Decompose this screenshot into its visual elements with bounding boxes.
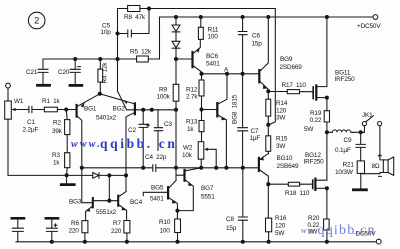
wire: x=275 column from top rail to R14 bottom xyxy=(269,9,276,125)
svg-text:2.2μF: 2.2μF xyxy=(23,127,39,134)
svg-text:BG2: BG2 xyxy=(113,106,126,113)
capacitor C3 xyxy=(154,110,162,151)
svg-text:R18 110: R18 110 xyxy=(285,190,310,197)
svg-text:C6: C6 xyxy=(252,33,260,40)
svg-text:R5 12k: R5 12k xyxy=(130,49,152,56)
node: BG11 source xyxy=(325,96,328,99)
svg-text:R9: R9 xyxy=(159,87,167,94)
svg-text:R13: R13 xyxy=(186,119,198,126)
transistor BG8 collector xyxy=(218,74,227,104)
wire: +DC50V rail y=17 xyxy=(160,16,373,18)
ground under C21 xyxy=(38,84,50,87)
svg-text:220: 220 xyxy=(111,228,122,235)
diode D1 xyxy=(172,25,180,31)
resistor R6 xyxy=(82,221,88,233)
transistor BG3 xyxy=(92,198,94,207)
transistor BG1 collector xyxy=(77,116,82,168)
svg-text:0.1μF: 0.1μF xyxy=(335,147,351,154)
node: BG12 source xyxy=(325,187,328,190)
resistor R19 xyxy=(326,98,328,133)
resistor R5 xyxy=(137,56,149,62)
svg-text:R10: R10 xyxy=(159,219,171,226)
svg-text:1k: 1k xyxy=(53,160,60,167)
node: BG1 base / R2 xyxy=(65,108,68,111)
svg-text:IRF250: IRF250 xyxy=(335,76,356,83)
transistor BG10 xyxy=(258,158,260,171)
mosfet BG11 source lead xyxy=(316,97,327,99)
transistor BG9 collector xyxy=(260,17,269,71)
node: BG9 collector top xyxy=(267,16,270,19)
capacitor C20 xyxy=(70,59,80,84)
transistor BG4 emitter xyxy=(119,205,127,221)
potentiometer W2 xyxy=(198,142,204,160)
node: output node xyxy=(325,131,328,134)
node: BG8 emitter tie xyxy=(225,166,228,169)
capacitor C5 xyxy=(118,30,132,37)
svg-text:15p: 15p xyxy=(252,40,263,47)
svg-text:W2: W2 xyxy=(183,145,193,152)
node: BG11 drain top xyxy=(325,16,328,19)
transistor BG3 emitter xyxy=(86,206,93,221)
diode D3 in bias line xyxy=(93,173,99,179)
svg-text:qqibb.cn: qqibb.cn xyxy=(318,223,376,238)
transistor BG6 xyxy=(191,52,193,67)
svg-text:qqibb. cn: qqibb. cn xyxy=(100,136,177,151)
resistor R17 xyxy=(268,91,312,93)
capacitor C6 xyxy=(238,17,247,74)
svg-text:5551: 5551 xyxy=(201,193,215,200)
transistor BG3 collector wire to BG4 base xyxy=(93,200,117,202)
potentiometer W1 xyxy=(7,88,9,175)
svg-text:5W: 5W xyxy=(304,126,314,133)
transistor BG9 xyxy=(258,70,260,82)
svg-text:R4 12k: R4 12k xyxy=(102,62,109,84)
transistor BG6 collector xyxy=(193,66,202,74)
node: BG1 collector on rail xyxy=(80,166,83,169)
node: C20 top xyxy=(74,58,77,61)
node: bias/BG3 xyxy=(108,174,111,177)
svg-text:R16: R16 xyxy=(275,215,287,222)
speaker 8 ohm xyxy=(383,160,388,173)
capacitor C9 xyxy=(356,132,365,161)
diode D2 xyxy=(172,41,180,47)
svg-text:R12: R12 xyxy=(186,87,198,94)
svg-text:5551x2: 5551x2 xyxy=(96,209,117,216)
capacitor C7 xyxy=(238,74,248,168)
ground under C20 xyxy=(70,84,82,87)
node: R10 bottom xyxy=(176,240,179,243)
transistor BG7 collector xyxy=(185,168,201,171)
svg-text:JK1: JK1 xyxy=(362,112,373,119)
svg-text:R8 47k: R8 47k xyxy=(124,14,146,21)
capacitor C22 xyxy=(12,217,24,220)
resistor R20 xyxy=(326,188,328,242)
svg-text:100k: 100k xyxy=(157,94,171,101)
transistor BG1 xyxy=(75,105,77,117)
node: R8/C5 right junction xyxy=(148,7,151,10)
svg-text:BG7: BG7 xyxy=(201,185,214,192)
svg-text:IRF250: IRF250 xyxy=(304,159,325,166)
svg-text:5W: 5W xyxy=(275,230,285,237)
transistor BG8 emitter xyxy=(218,115,227,168)
svg-text:R14: R14 xyxy=(276,100,288,107)
svg-text:R7: R7 xyxy=(113,220,121,227)
svg-text:3W: 3W xyxy=(276,115,286,122)
transistor BG2 emitter xyxy=(100,94,135,104)
mosfet BG12 gate bar xyxy=(312,180,314,188)
node: W2 wiper tie xyxy=(215,166,218,169)
resistor R21 xyxy=(357,161,364,174)
ground under R21 xyxy=(353,188,366,191)
transistor BG6 emitter xyxy=(193,39,200,53)
svg-text:C8: C8 xyxy=(226,216,234,223)
svg-text:C20: C20 xyxy=(58,69,70,76)
resistor R13 xyxy=(201,110,203,121)
svg-text:R1 1k: R1 1k xyxy=(42,98,61,105)
terminal: input jack xyxy=(6,83,11,88)
transistor BG2 collector xyxy=(126,113,134,192)
node: bias/BG4-BG2 column xyxy=(125,174,128,177)
svg-text:C7: C7 xyxy=(251,128,259,135)
transistor BG5 collector xyxy=(169,181,176,189)
svg-text:BG1: BG1 xyxy=(84,106,97,113)
svg-text:10/3W: 10/3W xyxy=(335,169,354,176)
node: R4 top xyxy=(99,58,102,61)
svg-text:0.22: 0.22 xyxy=(310,117,322,124)
svg-text:C9: C9 xyxy=(344,137,352,144)
node: zobel tap xyxy=(359,131,362,134)
transistor BG5 base xyxy=(143,192,167,195)
capacitor C1 xyxy=(29,106,32,112)
node: C6 top xyxy=(241,16,244,19)
svg-text:5401: 5401 xyxy=(206,60,220,67)
wire: node A horizontal y=73.8 xyxy=(202,73,259,75)
svg-text:120: 120 xyxy=(276,107,287,114)
node: C23 bottom xyxy=(50,240,53,243)
wire: BG2 base network y=109.8 xyxy=(118,59,177,110)
node: BG5 collector column xyxy=(175,166,178,169)
terminal +DC50V xyxy=(373,15,378,20)
transistor BG2 xyxy=(134,103,136,114)
svg-text:R21: R21 xyxy=(343,161,355,168)
W1 wiper arrow xyxy=(12,108,16,111)
svg-text:BG9: BG9 xyxy=(280,56,293,63)
svg-text:5401: 5401 xyxy=(150,196,164,203)
transistor BG1 emitter xyxy=(77,94,99,107)
mosfet BG11 gate bar xyxy=(312,87,314,99)
svg-text:BG10: BG10 xyxy=(277,155,293,162)
resistor R2 xyxy=(66,110,67,153)
resistor R7 xyxy=(124,221,130,234)
svg-text:BG8 1815: BG8 1815 xyxy=(232,94,239,124)
svg-text:ww.: ww. xyxy=(301,225,319,235)
wire: bias to mirror xyxy=(108,175,110,200)
svg-text:8Ω: 8Ω xyxy=(372,163,380,170)
transistor BG8 base wire xyxy=(202,109,217,111)
transistor BG10 collector xyxy=(259,170,268,185)
wire: output to BG12 drain xyxy=(315,132,327,180)
svg-text:BC6: BC6 xyxy=(206,53,219,60)
svg-text:R19: R19 xyxy=(310,110,322,117)
ground under R3 xyxy=(61,175,74,184)
node: BG7 collector / W2 bottom xyxy=(200,166,203,169)
node: BG8 base / R12-R13 xyxy=(200,108,203,111)
node: diode top xyxy=(175,16,178,19)
wire: input line xyxy=(12,109,76,111)
node: mirror tie xyxy=(108,199,111,202)
wire: bottom -DC50V rail xyxy=(16,241,376,243)
svg-text:R17 110: R17 110 xyxy=(282,82,307,89)
svg-text:BG5: BG5 xyxy=(151,185,164,192)
svg-text:10k: 10k xyxy=(182,152,193,159)
wire: bias line y=175.4 xyxy=(8,174,126,176)
terminal -DC50V xyxy=(376,239,381,244)
svg-text:220: 220 xyxy=(69,228,80,235)
svg-text:5401x2: 5401x2 xyxy=(96,115,117,122)
transistor BG5 emitter xyxy=(169,198,178,211)
svg-text:100: 100 xyxy=(208,33,219,40)
svg-text:R6: R6 xyxy=(71,220,79,227)
transistor BG5 xyxy=(167,187,169,198)
node: R16 bottom xyxy=(267,240,270,243)
figure number circle 2 xyxy=(28,12,45,29)
transistor BG7 emitter xyxy=(177,180,193,211)
svg-text:R3: R3 xyxy=(52,152,60,159)
node: BG9 emitter / R17 / R14 xyxy=(267,90,270,93)
node: C2 top xyxy=(142,108,145,111)
svg-text:www.: www. xyxy=(71,139,102,150)
node: BG8 collector on node A xyxy=(226,72,229,75)
node: diff pair emitter junction xyxy=(98,92,101,95)
svg-text:2SB649: 2SB649 xyxy=(277,163,299,170)
resistor R16 xyxy=(267,184,269,242)
svg-text:R2: R2 xyxy=(53,120,61,127)
node: C7 bottom xyxy=(241,166,244,169)
transistor BG4 collector xyxy=(119,192,127,197)
node: R9 bottom xyxy=(175,108,178,111)
svg-text:100: 100 xyxy=(160,228,171,235)
wire: node A rail y=167.8 (BG1 col - C4 - drivers) xyxy=(82,167,259,169)
wire: left branch x=117.5 down xyxy=(117,9,119,60)
node: node A junction (BG6 col / R12) xyxy=(200,72,203,75)
svg-text:15p: 15p xyxy=(226,225,237,232)
svg-text:3W: 3W xyxy=(276,143,286,150)
capacitor C8 xyxy=(238,168,247,242)
node: R3 bottom xyxy=(65,174,68,177)
transistor BG9 emitter xyxy=(260,81,269,91)
transistor BG10 emitter xyxy=(260,154,268,160)
svg-text:120: 120 xyxy=(275,222,286,229)
wire: comp column x=176 down to BG7 base xyxy=(176,110,184,181)
transistor BG8 xyxy=(216,103,218,116)
mosfet BG11 channel xyxy=(315,85,317,99)
wire: diode string column xyxy=(175,17,177,59)
capacitor C4 xyxy=(153,165,156,172)
resistor R11 xyxy=(198,27,203,39)
svg-text:+DC50V: +DC50V xyxy=(357,23,381,30)
svg-text:C3: C3 xyxy=(164,121,172,128)
transistor BG4 xyxy=(117,196,119,206)
svg-text:C4 22p: C4 22p xyxy=(145,154,167,161)
node: R6 bottom xyxy=(83,240,86,243)
capacitor C21 xyxy=(38,59,48,84)
svg-text:2: 2 xyxy=(34,16,39,26)
svg-text:R15: R15 xyxy=(276,135,288,142)
svg-text:2SD669: 2SD669 xyxy=(280,64,303,71)
resistor R15 xyxy=(267,125,269,154)
svg-text:39k: 39k xyxy=(52,128,63,135)
switch JK1 xyxy=(364,116,383,160)
svg-text:BG3: BG3 xyxy=(69,199,82,206)
node: BG10 collector / R18 xyxy=(267,183,270,186)
node: C2 bottom xyxy=(142,166,145,169)
resistor R8 xyxy=(128,6,140,12)
node: R11 top xyxy=(199,16,202,19)
svg-text:1μF: 1μF xyxy=(250,135,261,142)
svg-text:2.7k: 2.7k xyxy=(186,94,198,101)
node: C6 bottom on node A wire xyxy=(241,72,244,75)
svg-text:W1: W1 xyxy=(14,98,24,105)
node: C8 bottom xyxy=(241,240,244,243)
resistor R18 xyxy=(268,183,312,185)
resistor R9 xyxy=(175,59,177,110)
wire: C5 right branch xyxy=(132,9,149,34)
node: R14 bottom xyxy=(267,123,270,126)
wire: top feedback rail y=8.5 xyxy=(118,8,276,10)
svg-text:10p: 10p xyxy=(101,29,112,36)
mosfet BG12 channel xyxy=(314,179,316,190)
svg-text:BC4: BC4 xyxy=(130,199,143,206)
resistor R12 xyxy=(201,74,203,80)
inductor L1 output coil xyxy=(327,130,365,132)
resistor R4 xyxy=(99,59,101,94)
node: R7 bottom xyxy=(125,240,128,243)
transistor BG6 base wire xyxy=(176,58,191,60)
svg-text:C1: C1 xyxy=(27,119,35,126)
capacitor C23 xyxy=(46,217,58,220)
mosfet BG12 source lead xyxy=(315,187,327,189)
node: R5 left xyxy=(116,58,119,61)
capacitor C2 xyxy=(139,110,149,168)
resistor R10 xyxy=(176,211,178,219)
svg-text:C2: C2 xyxy=(128,127,136,134)
node: C5 left junction xyxy=(116,32,119,35)
resistor R3 xyxy=(65,153,70,168)
node: C3 top xyxy=(150,108,153,111)
node: BG6 base xyxy=(175,58,178,61)
svg-text:1k: 1k xyxy=(187,126,194,133)
transistor BG7 xyxy=(183,170,185,181)
resistor R14 xyxy=(267,91,269,124)
svg-text:C21: C21 xyxy=(26,69,38,76)
node: R10 top xyxy=(176,209,179,212)
mosfet BG11 drain lead xyxy=(316,17,327,87)
resistor R1 xyxy=(44,107,57,112)
wire: feedback rail y=59 xyxy=(43,17,160,59)
transistor BG3 base column xyxy=(82,168,92,203)
W2 wiper arrow and tie xyxy=(204,148,208,151)
node: R20 bottom xyxy=(325,240,328,243)
